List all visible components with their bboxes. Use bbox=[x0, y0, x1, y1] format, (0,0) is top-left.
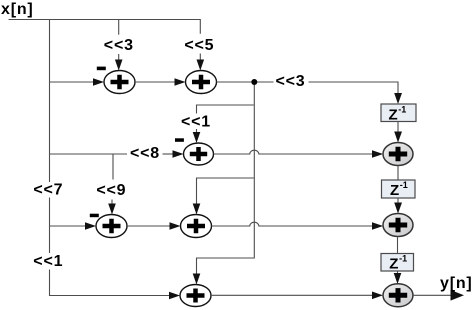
svg-text:Z: Z bbox=[389, 107, 398, 124]
shift <<1 label on V1 bbox=[33, 253, 63, 270]
svg-text:<<1: <<1 bbox=[181, 114, 211, 131]
svg-text:-1: -1 bbox=[399, 254, 407, 264]
shift <<7 label on V1 bbox=[33, 182, 63, 199]
shift <<8 label bbox=[130, 145, 160, 162]
adder A5 (row 3 right) bbox=[181, 215, 212, 238]
wire: adder A2 output east to label break bbox=[217, 81, 274, 83]
svg-text:<<9: <<9 bbox=[96, 182, 126, 199]
wire: adder A4 output to adder A5 with arrowhead bbox=[127, 222, 181, 230]
adder A3 (row 2) bbox=[184, 143, 214, 165]
minus sign at adder A3 bbox=[175, 138, 184, 142]
adder A2 bbox=[186, 71, 217, 94]
wire: V1 middle segment bbox=[49, 198, 51, 254]
shift <<9 label bbox=[96, 182, 126, 199]
svg-text:Z: Z bbox=[389, 256, 398, 273]
svg-text:<<5: <<5 bbox=[184, 37, 214, 54]
minus sign at adder A1 bbox=[97, 67, 106, 71]
svg-text:<<8: <<8 bbox=[130, 145, 160, 162]
adder A1 bbox=[104, 71, 135, 94]
delay Z3 bbox=[381, 254, 414, 273]
wire: adder A3 output with hop over V2 then arrow into adder R1 bbox=[214, 150, 384, 158]
wire: V1 lower segment, corner to bottom row, arrow into adder A6 bbox=[50, 270, 181, 300]
shift <<1 label feeding adder A3 bbox=[181, 114, 211, 131]
node: junction dot after adder A2 bbox=[251, 79, 257, 85]
wire: V2 branch to shift <<1 feed (row 2 adder A3 top) bbox=[197, 105, 254, 114]
wire: arrow from shift <<1 into adder A3 top bbox=[193, 129, 201, 143]
svg-text:x[n]: x[n] bbox=[1, 1, 34, 18]
wire: arrow from shift <<5 into adder A2 top bbox=[197, 54, 205, 71]
wire: arrow from shift <<8 into adder A3 with arrowhead bbox=[163, 150, 184, 158]
svg-text:<<1: <<1 bbox=[33, 253, 63, 270]
adder A6 (bottom row) bbox=[180, 285, 211, 307]
adder R2 (right column, row 3) bbox=[383, 214, 413, 237]
shift <<3 label (feedforward to first delay) bbox=[276, 73, 306, 90]
svg-text:-1: -1 bbox=[398, 105, 406, 115]
shift <<3 label (first tap) bbox=[104, 37, 134, 54]
wire: stub from top bus to shift <<3 bbox=[118, 20, 120, 35]
wire: delay Z2 output arrow into adder R2 bbox=[394, 198, 402, 214]
svg-text:y[n]: y[n] bbox=[440, 275, 473, 292]
wire: adder A6 output to adder R3 with arrowhead bbox=[211, 292, 383, 300]
wire: adder A1 output to adder A2 with arrowhead bbox=[135, 78, 186, 86]
wire: branch V1 to adder A4 (row 3) with arrowhead bbox=[50, 222, 97, 230]
adder A4 (row 3 left) bbox=[96, 215, 127, 238]
wire: top bus from x[n] with corner down toward shift <<5 bbox=[9, 20, 201, 34]
wire: arrow from shift <<3 into adder A1 top bbox=[115, 54, 123, 71]
svg-text:<<3: <<3 bbox=[276, 73, 306, 90]
wire: left vertical bus V1 upper segment bbox=[49, 20, 51, 183]
wire: V2 branch at y178 to adder A5 top with arrowhead bbox=[193, 178, 254, 215]
shift <<5 label (second tap) bbox=[184, 37, 214, 54]
wire: row2 from V1 to shift <<8 label bbox=[50, 153, 128, 155]
wire: adder R1 output into delay Z2 bbox=[397, 166, 399, 181]
svg-text:Z: Z bbox=[390, 182, 399, 199]
minus sign at adder A4 bbox=[90, 214, 99, 218]
wire: arrow from shift <<9 into adder A4 top bbox=[108, 200, 116, 215]
wire: vertical bus V2 from junction down, corner left, arrow into adder A6 top bbox=[193, 85, 255, 285]
wire: output of adder R3 with big arrowhead bbox=[413, 290, 464, 301]
wire: delay Z1 output arrow into adder R1 bbox=[394, 122, 402, 143]
wire: adder R2 output into delay Z3 bbox=[397, 237, 399, 254]
delay Z1 bbox=[381, 104, 416, 124]
wire: delay Z3 output arrow into adder R3 bbox=[394, 271, 402, 284]
svg-text:<<7: <<7 bbox=[33, 182, 63, 199]
wire: branch V1 to adder A1 with arrowhead bbox=[50, 78, 105, 86]
adder R3 (right column, bottom) bbox=[383, 284, 413, 307]
input label x[n] bbox=[1, 1, 34, 18]
wire: from <<3 label to right column, corner down, arrow into delay Z1 bbox=[309, 82, 403, 104]
wire: branch V3 down from row2 toward shift <<9 bbox=[112, 154, 114, 180]
delay Z2 bbox=[382, 180, 416, 199]
svg-text:<<3: <<3 bbox=[104, 37, 134, 54]
output label y[n] bbox=[440, 275, 473, 292]
adder R1 (right column, row 2) bbox=[383, 143, 413, 166]
wire: adder A5 output with hop over V2 then arrow into adder R2 bbox=[212, 222, 384, 230]
svg-text:-1: -1 bbox=[400, 180, 408, 190]
